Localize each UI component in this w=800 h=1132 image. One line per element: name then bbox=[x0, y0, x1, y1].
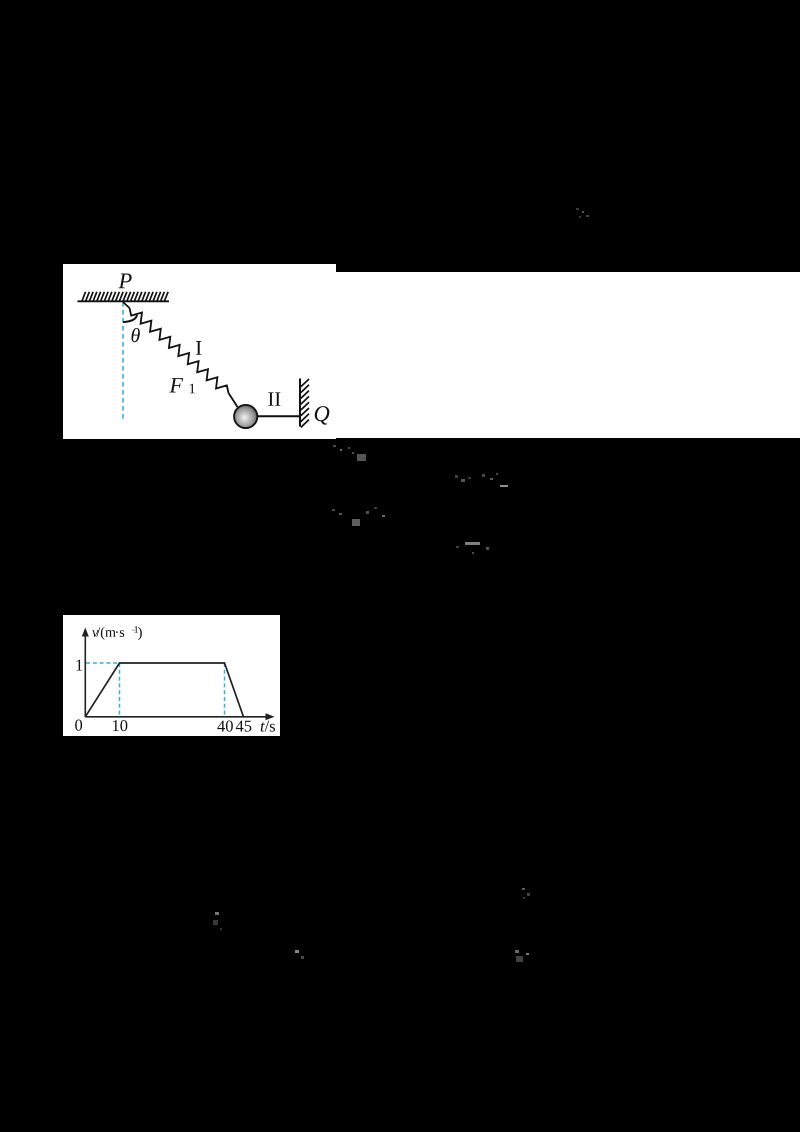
tick label 10 bbox=[113, 720, 127, 731]
label P bbox=[118, 273, 131, 288]
white figure panel 1 (spring diagram) bbox=[63, 264, 336, 439]
wall hatching bbox=[301, 379, 309, 427]
axis label t/s bbox=[261, 721, 275, 732]
spring diagram svg bbox=[63, 264, 336, 439]
spring to ball link bbox=[229, 393, 238, 407]
dashed guide vertical t=10 bbox=[119, 663, 121, 717]
dashed vertical reference line bbox=[122, 302, 124, 422]
x axis bbox=[85, 716, 268, 718]
ceiling line bbox=[78, 300, 170, 302]
tick label 40 bbox=[217, 721, 233, 732]
angle arc theta bbox=[123, 315, 137, 322]
faint residue cluster C8 bbox=[512, 948, 534, 968]
spring top attach segment bbox=[123, 302, 130, 308]
y axis arrowhead bbox=[82, 628, 89, 637]
link II line to wall bbox=[257, 415, 300, 417]
faint residue cluster C3 bbox=[452, 468, 512, 490]
v-t trapezoid curve bbox=[85, 663, 243, 717]
faint residue cluster C1 bbox=[330, 442, 372, 464]
label Q bbox=[315, 406, 330, 425]
dashed guide horizontal v=1 bbox=[86, 662, 120, 664]
tick label 45 bbox=[236, 721, 252, 732]
axis label v/(m·s-1) bbox=[92, 626, 142, 640]
y axis bbox=[84, 634, 86, 717]
faint residue cluster C6 bbox=[211, 908, 227, 934]
ceiling hatching bbox=[82, 292, 168, 301]
origin label 0 bbox=[75, 720, 82, 731]
dashed guide vertical t=40 bbox=[224, 663, 226, 717]
x axis arrowhead bbox=[266, 713, 275, 720]
tick label 1 bbox=[76, 660, 82, 671]
label II bbox=[268, 392, 280, 405]
wall line bbox=[299, 379, 301, 427]
label theta bbox=[131, 328, 139, 342]
faint residue cluster C7 bbox=[292, 948, 310, 964]
label I bbox=[196, 341, 201, 355]
white figure panel 2 (v-t graph) bbox=[63, 615, 280, 736]
faint residue cluster C2 bbox=[330, 503, 396, 528]
v-t graph svg bbox=[63, 615, 280, 736]
spring I zigzag bbox=[130, 308, 229, 393]
faint residue speck cluster (top) bbox=[574, 206, 592, 220]
ball bbox=[234, 405, 257, 428]
label F1 bbox=[169, 378, 183, 392]
faint residue cluster C4 bbox=[452, 537, 502, 559]
faint residue cluster C5 bbox=[519, 886, 535, 902]
white figure backing block (right extension) bbox=[336, 272, 800, 438]
